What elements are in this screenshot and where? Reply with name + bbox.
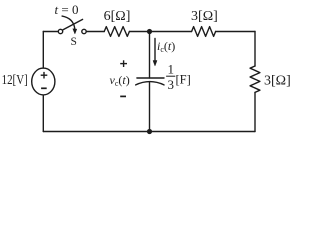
capacitor C1 bottom curved plate [136, 82, 164, 85]
svg-text:[F]: [F] [176, 72, 191, 86]
current arrow i_c(t) [153, 39, 157, 66]
svg-text:6[Ω]: 6[Ω] [104, 9, 131, 24]
wire right side upper [254, 32, 256, 67]
wire middle branch lower [149, 82, 151, 131]
resistor R1 6[ohm] [104, 27, 129, 37]
svg-text:t = 0: t = 0 [55, 2, 79, 17]
capacitor C1 top plate [137, 77, 164, 79]
node junction top [147, 29, 152, 34]
label plus of source [41, 72, 48, 79]
svg-text:3[Ω]: 3[Ω] [191, 9, 218, 24]
wire top-left from corner to switch [43, 31, 58, 33]
svg-text:12[V]: 12[V] [2, 72, 28, 87]
label plus of capacitor [120, 60, 127, 67]
label minus of capacitor [120, 95, 126, 97]
label 1/3 [F] fraction [166, 61, 191, 92]
voltage source V1 [32, 68, 55, 95]
resistor R2 3[ohm] top [192, 27, 216, 37]
label 12[V] [2, 72, 28, 87]
wire switch to resistor 6ohm [86, 31, 104, 33]
svg-text:ic(t): ic(t) [157, 39, 175, 54]
wire top junction to resistor 3ohm [150, 31, 192, 33]
svg-text:vc(t): vc(t) [110, 73, 130, 88]
label i_c(t) [157, 39, 175, 54]
wire bottom [43, 131, 255, 133]
svg-text:1: 1 [167, 61, 174, 76]
wire left upper [42, 32, 44, 69]
wire left lower [42, 95, 44, 132]
wire middle branch upper [149, 32, 151, 79]
svg-text:S: S [70, 36, 76, 48]
label 6[ohm] [104, 9, 131, 24]
label 3[ohm] top [191, 9, 218, 24]
node junction bottom [147, 129, 152, 134]
svg-text:3[Ω]: 3[Ω] [264, 73, 291, 88]
resistor R3 3[ohm] right [250, 66, 260, 92]
svg-text:3: 3 [167, 77, 174, 92]
label v_c(t) [110, 73, 130, 88]
switch S [58, 16, 86, 34]
label 3[ohm] right [264, 73, 291, 88]
label t=0 [55, 2, 79, 17]
label S [70, 36, 76, 48]
wire resistor 3ohm to top-right corner [216, 31, 255, 33]
wire right side lower [254, 92, 256, 131]
label minus of source [41, 87, 47, 89]
wire resistor 6ohm to top junction [129, 31, 149, 33]
